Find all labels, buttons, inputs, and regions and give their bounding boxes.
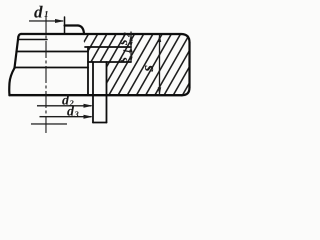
svg-text:1: 1	[44, 9, 49, 19]
arrow up at top edge	[129, 34, 132, 41]
d3 arrow	[83, 115, 93, 119]
svg-text:s: s	[138, 65, 157, 73]
top-left rounded corner	[18, 34, 21, 37]
svg-text:d: d	[34, 2, 43, 21]
arrow down at y=62	[129, 57, 132, 63]
second edge line left y=39	[18, 38, 47, 40]
label d2	[62, 93, 75, 108]
boss left edge / d1 extension line	[64, 17, 66, 34]
tab left edge x=93	[92, 62, 94, 122]
svg-text:3: 3	[73, 109, 79, 119]
dimension s2/s1 vertical line	[129, 32, 132, 63]
label d3	[67, 104, 80, 119]
extra lower line	[31, 123, 67, 125]
dimension s vertical line	[158, 34, 161, 95]
hatching of sectioned ring	[40, 31, 228, 103]
dimension d2 line	[37, 104, 93, 108]
svg-text:s: s	[116, 39, 131, 46]
boss top edge	[65, 24, 79, 26]
break line left	[9, 68, 14, 95]
main outline group	[9, 17, 189, 123]
interior line y=51.5	[16, 50, 88, 52]
vertical boundary x=88	[87, 47, 89, 95]
svg-text:2: 2	[123, 32, 133, 38]
label s1 (rotated)	[116, 49, 133, 64]
bottom-right rounded corner	[182, 88, 190, 96]
boss rounded right corner	[78, 25, 84, 34]
arrows at y=47	[129, 42, 132, 47]
layer line y=62	[88, 61, 131, 63]
svg-text:s: s	[116, 57, 131, 64]
svg-text:1: 1	[123, 49, 133, 54]
top edge	[21, 33, 181, 35]
dimension d1 line	[29, 19, 65, 23]
left edge (slightly slanted)	[15, 37, 19, 68]
layer line y=47	[85, 46, 131, 48]
d2 arrow	[83, 104, 93, 108]
label s2 (rotated)	[116, 32, 133, 46]
dimension d3 line	[39, 115, 93, 119]
centerline axis	[45, 16, 47, 135]
tab right edge x=106.5	[105, 62, 107, 122]
label d1	[34, 2, 49, 21]
paper background	[0, 0, 193, 141]
d1 arrow	[55, 19, 65, 23]
top-right rounded corner	[181, 34, 190, 43]
tab bottom edge	[93, 121, 107, 123]
right edge	[188, 43, 190, 88]
arrow down	[158, 87, 161, 95]
bottom edge	[9, 94, 181, 96]
interior line y=67.5	[15, 66, 88, 68]
arrow up	[158, 34, 161, 42]
